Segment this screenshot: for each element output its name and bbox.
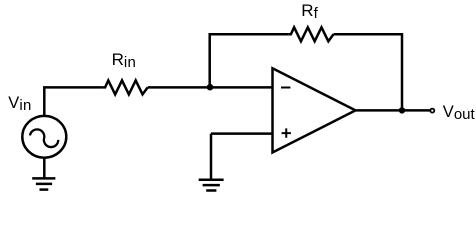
wire ground riser for plus input: [210, 134, 213, 180]
voltage source V1: [22, 116, 66, 158]
wire source bottom to ground: [43, 158, 46, 179]
op-amp non-inverting input marker (plus): [282, 128, 291, 137]
resistor Rin: [103, 80, 148, 94]
node A junction dot: [207, 84, 214, 91]
svg-text:Vin: Vin: [8, 94, 31, 114]
wire source top to Rin: [44, 87, 103, 116]
node B output junction dot: [399, 107, 405, 113]
op-amp U1 body: [273, 68, 356, 152]
wire op-amp output to terminal: [356, 109, 430, 112]
terminal Vout (open circle): [430, 109, 434, 113]
wire feedback left: node A up and across to Rf: [210, 34, 289, 87]
wire feedback right: Rf across and down to output node: [334, 34, 403, 110]
resistor Rf: [289, 27, 334, 41]
op-amp inverting input marker (minus): [281, 87, 290, 89]
wire plus input from ground riser: [211, 132, 273, 135]
svg-text:Rf: Rf: [301, 1, 318, 22]
svg-text:Vout: Vout: [443, 103, 476, 123]
wire Rin to op-amp minus input: [148, 86, 273, 89]
ground (op-amp plus input): [199, 180, 224, 191]
ground (source): [32, 178, 55, 189]
svg-text:Rin: Rin: [112, 50, 137, 71]
